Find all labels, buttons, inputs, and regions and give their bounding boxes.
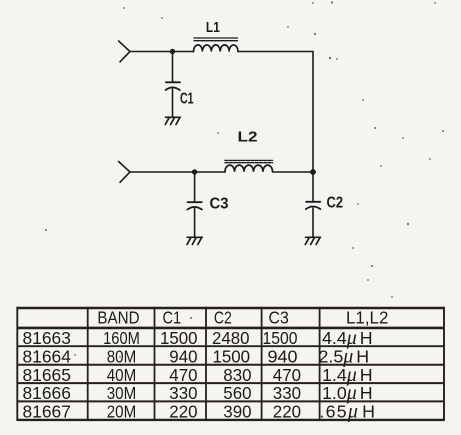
parts table text bbox=[23, 307, 389, 422]
connector J2 (bottom input) bbox=[119, 162, 130, 183]
svg-text:2480: 2480 bbox=[212, 328, 250, 348]
capacitor C2 bbox=[306, 172, 321, 237]
svg-text:81663: 81663 bbox=[23, 328, 72, 348]
node C (junction dot, output) bbox=[310, 169, 316, 175]
svg-text:560: 560 bbox=[223, 383, 251, 403]
svg-text:330: 330 bbox=[273, 383, 301, 403]
svg-text:81666: 81666 bbox=[23, 383, 72, 403]
svg-text:81667: 81667 bbox=[23, 402, 71, 422]
inductor L2 bbox=[225, 160, 273, 171]
svg-text:C2: C2 bbox=[327, 195, 344, 212]
svg-text:940: 940 bbox=[169, 346, 197, 366]
svg-text:940: 940 bbox=[268, 346, 298, 366]
svg-text:C1: C1 bbox=[180, 91, 194, 108]
svg-text:C1: C1 bbox=[163, 307, 182, 327]
svg-text:.65μH: .65μH bbox=[320, 401, 377, 423]
svg-text:160M: 160M bbox=[103, 328, 140, 348]
wire: right vertical drop bbox=[312, 52, 314, 173]
svg-text:L2: L2 bbox=[238, 129, 258, 146]
ground (C1) bbox=[165, 117, 180, 124]
node A (junction dot top) bbox=[170, 49, 175, 54]
svg-text:L1,L2: L1,L2 bbox=[346, 307, 388, 327]
svg-text:1500: 1500 bbox=[160, 328, 198, 348]
svg-text:220: 220 bbox=[169, 402, 197, 422]
svg-text:470: 470 bbox=[169, 365, 197, 385]
ground (C3) bbox=[187, 237, 202, 244]
svg-text:BAND: BAND bbox=[97, 307, 139, 327]
svg-text:C3: C3 bbox=[210, 196, 229, 213]
svg-text:390: 390 bbox=[223, 402, 251, 422]
svg-text:81665: 81665 bbox=[23, 365, 72, 385]
svg-text:40M: 40M bbox=[107, 365, 137, 385]
svg-text:C3: C3 bbox=[269, 307, 289, 327]
node B (junction dot, C3 tap) bbox=[192, 169, 197, 174]
svg-text:81664: 81664 bbox=[23, 346, 72, 366]
svg-text:1500: 1500 bbox=[263, 328, 298, 348]
wire: bottom input to L2 bbox=[130, 171, 225, 173]
capacitor C3 bbox=[187, 172, 202, 237]
svg-text:1500: 1500 bbox=[213, 346, 251, 366]
wire: L2 to output node bbox=[273, 171, 314, 173]
svg-text:80M: 80M bbox=[107, 346, 137, 366]
connector J1 (top input) bbox=[119, 41, 130, 62]
svg-text:470: 470 bbox=[273, 365, 301, 385]
scan noise specks bbox=[45, 1, 444, 403]
capacitor C1 bbox=[166, 52, 181, 118]
svg-text:30M: 30M bbox=[107, 383, 137, 403]
svg-text:830: 830 bbox=[223, 365, 251, 385]
svg-text:C2: C2 bbox=[214, 307, 232, 327]
svg-text:L1: L1 bbox=[206, 19, 220, 36]
wire: top input to L1 bbox=[130, 51, 194, 53]
parts table grid bbox=[17, 307, 444, 421]
ground (C2) bbox=[305, 237, 320, 244]
inductor L1 bbox=[194, 38, 238, 52]
svg-text:330: 330 bbox=[169, 383, 197, 403]
wire: L1 to corner bbox=[238, 51, 313, 53]
svg-text:220: 220 bbox=[273, 402, 301, 422]
svg-text:20M: 20M bbox=[107, 402, 137, 422]
